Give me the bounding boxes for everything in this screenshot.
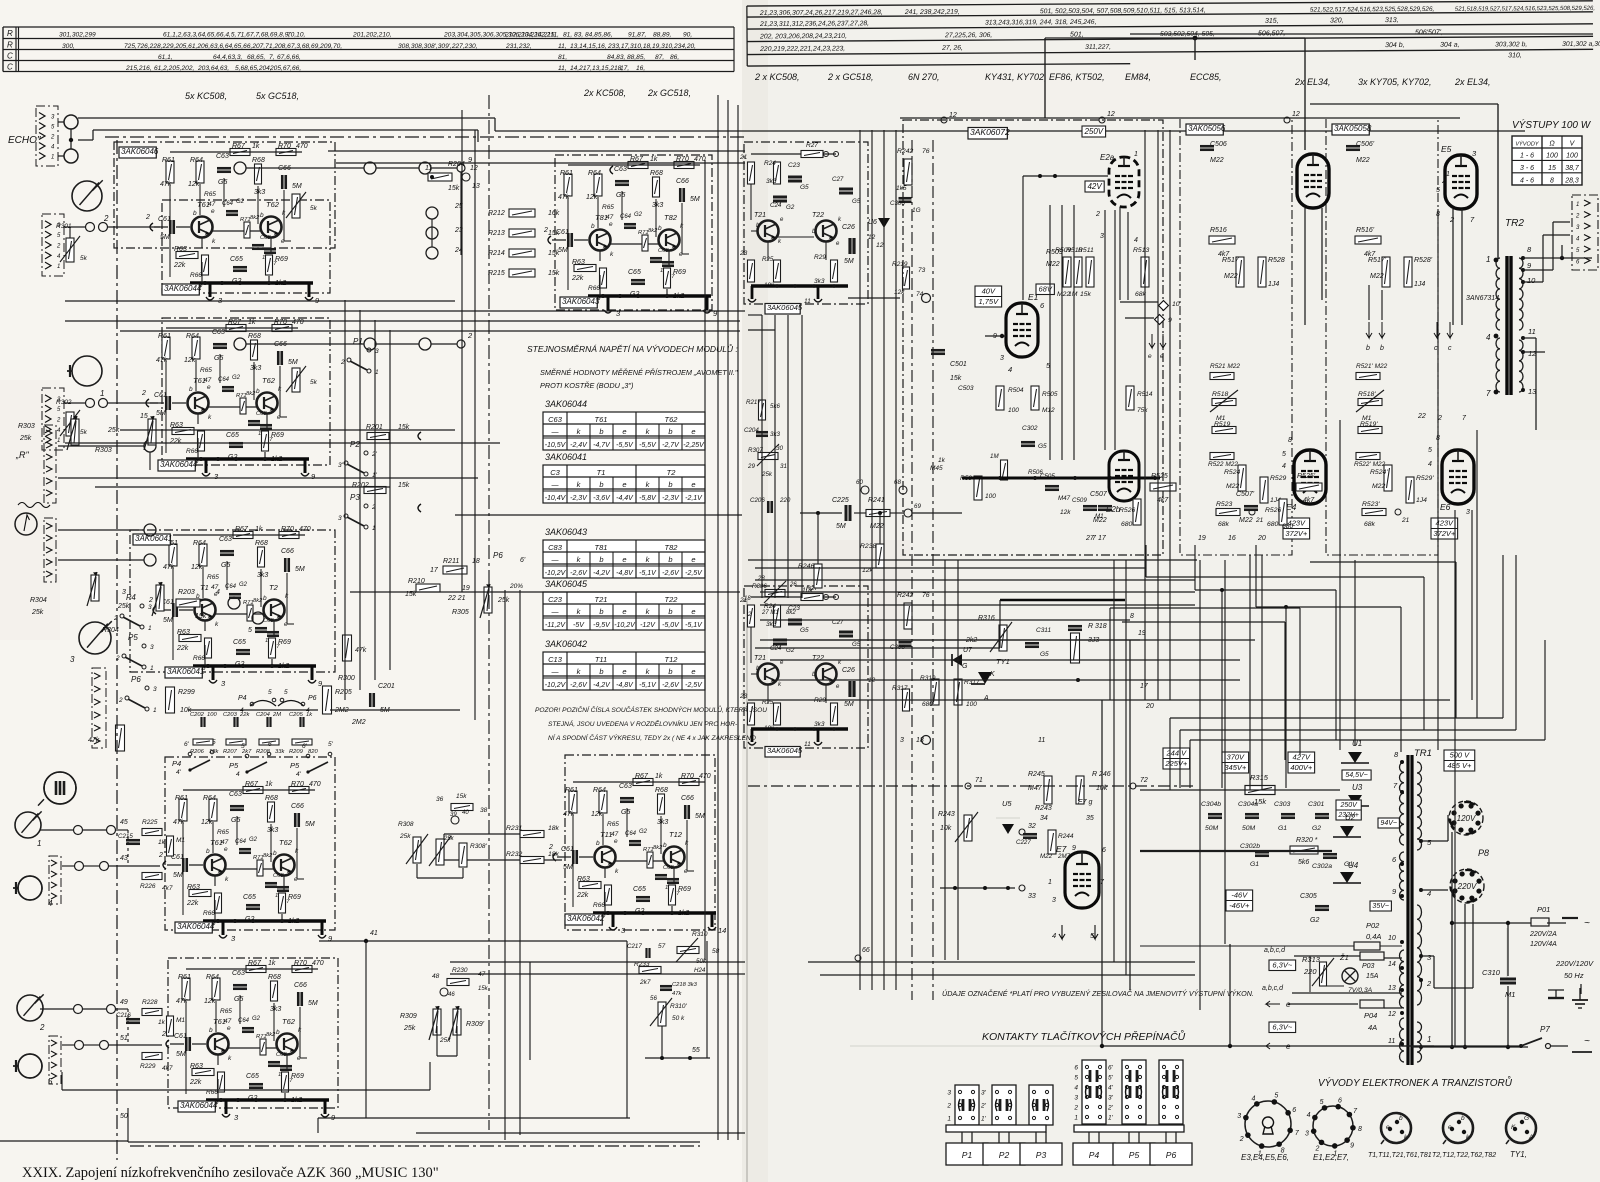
svg-text:C63: C63: [212, 329, 225, 336]
svg-text:T2,T12,T22,T62,T82: T2,T12,T22,T62,T82: [1432, 1152, 1496, 1159]
svg-text:2: 2: [50, 135, 55, 141]
svg-text:C204: C204: [744, 427, 759, 434]
svg-text:A: A: [983, 695, 989, 702]
svg-text:4 - 6: 4 - 6: [1520, 177, 1534, 184]
svg-text:11: 11: [1388, 1038, 1395, 1045]
svg-text:4: 4: [48, 899, 53, 908]
svg-text:1: 1: [1446, 171, 1450, 178]
svg-text:32: 32: [1028, 823, 1036, 830]
svg-text:R64: R64: [593, 787, 606, 794]
svg-text:5x KC508,: 5x KC508,: [185, 91, 227, 101]
svg-text:-4,2V: -4,2V: [593, 570, 611, 577]
svg-text:R230: R230: [452, 967, 468, 974]
svg-text:2: 2: [118, 697, 123, 704]
svg-text:6,3V~: 6,3V~: [1272, 1023, 1292, 1032]
svg-text:P6: P6: [493, 551, 503, 560]
svg-text:-2,6V: -2,6V: [662, 570, 680, 577]
svg-text:b: b: [668, 607, 672, 616]
svg-text:C227: C227: [1016, 839, 1031, 846]
svg-text:20%: 20%: [509, 583, 523, 590]
svg-text:3: 3: [70, 655, 75, 664]
svg-text:R528': R528': [1414, 257, 1433, 264]
svg-text:R304: R304: [30, 597, 47, 604]
svg-text:R67: R67: [630, 156, 644, 163]
svg-text:8k2: 8k2: [246, 391, 256, 397]
svg-text:e: e: [1148, 353, 1152, 360]
svg-text:5M: 5M: [690, 196, 700, 203]
svg-text:e: e: [622, 555, 626, 564]
svg-text:1J4: 1J4: [1414, 281, 1425, 288]
svg-text:345V+: 345V+: [1224, 763, 1247, 772]
svg-text:5M: 5M: [844, 258, 854, 265]
svg-text:313,: 313,: [1385, 17, 1399, 24]
svg-text:C302a: C302a: [1312, 863, 1332, 870]
svg-text:41: 41: [370, 930, 378, 937]
svg-text:22 21: 22 21: [447, 595, 466, 602]
svg-text:15: 15: [140, 413, 148, 420]
svg-text:C507': C507': [1236, 491, 1255, 498]
svg-text:G5: G5: [218, 179, 227, 186]
svg-text:35V~: 35V~: [1372, 903, 1389, 910]
svg-text:C66: C66: [294, 982, 307, 989]
svg-text:R63: R63: [187, 884, 200, 891]
svg-text:68,65,: 68,65,: [247, 54, 266, 61]
svg-text:1': 1': [1108, 1115, 1114, 1122]
svg-text:25k: 25k: [403, 1025, 416, 1032]
svg-text:R522 M22: R522 M22: [1208, 461, 1238, 468]
svg-text:5: 5: [268, 689, 272, 696]
svg-text:3AK06044: 3AK06044: [545, 399, 587, 409]
svg-text:1k: 1k: [650, 156, 658, 163]
svg-text:R317: R317: [892, 685, 908, 692]
svg-text:68: 68: [894, 479, 901, 486]
svg-text:C506': C506': [1356, 141, 1375, 148]
svg-text:T1: T1: [597, 468, 606, 477]
svg-text:1M: 1M: [990, 453, 999, 460]
svg-text:R67: R67: [228, 319, 242, 326]
svg-text:4k7: 4k7: [162, 1065, 173, 1072]
svg-text:5x GC518,: 5x GC518,: [256, 91, 299, 101]
svg-text:T11: T11: [595, 655, 607, 664]
svg-text:b: b: [260, 212, 264, 219]
svg-text:2x GC518,: 2x GC518,: [647, 88, 691, 98]
svg-text:KONTAKTY TLAČÍTKOVÝCH PŘEPÍNAČ: KONTAKTY TLAČÍTKOVÝCH PŘEPÍNAČŮ: [982, 1029, 1186, 1043]
svg-text:23: 23: [739, 250, 748, 257]
svg-text:1k5: 1k5: [896, 185, 907, 192]
svg-text:49: 49: [120, 999, 128, 1006]
svg-text:R66: R66: [593, 902, 605, 909]
svg-text:R303: R303: [95, 447, 112, 454]
svg-text:12k: 12k: [1060, 509, 1071, 516]
svg-text:e: e: [622, 480, 626, 489]
svg-text:R524': R524': [1370, 469, 1388, 476]
svg-text:50M: 50M: [1242, 825, 1256, 832]
svg-text:a,b,c,d: a,b,c,d: [1264, 947, 1286, 954]
svg-text:68V: 68V: [1039, 285, 1053, 294]
svg-text:R241: R241: [868, 497, 885, 504]
svg-text:b: b: [1380, 345, 1384, 352]
svg-text:241, 238,242,219,: 241, 238,242,219,: [904, 9, 960, 16]
svg-text:R70: R70: [291, 781, 304, 788]
svg-text:e: e: [622, 607, 626, 616]
svg-text:R517': R517': [1368, 257, 1387, 264]
svg-text:220V/2A: 220V/2A: [1529, 931, 1557, 938]
svg-text:17: 17: [1098, 535, 1107, 542]
svg-text:5: 5: [1274, 1093, 1278, 1100]
svg-text:R246: R246: [798, 563, 814, 570]
svg-text:12: 12: [1107, 111, 1115, 118]
svg-text:220: 220: [779, 497, 791, 504]
svg-text:4: 4: [240, 707, 244, 714]
svg-text:R242: R242: [897, 592, 913, 599]
svg-text:521,518,519,527,517,524,516,52: 521,518,519,527,517,524,516,523,525,508,…: [1455, 6, 1595, 13]
svg-text:C68: C68: [658, 248, 669, 254]
svg-text:1,75V: 1,75V: [979, 297, 1000, 306]
svg-text:A: A: [1528, 1134, 1533, 1141]
svg-text:P3: P3: [350, 493, 360, 502]
svg-text:1k: 1k: [255, 526, 263, 533]
svg-text:R516: R516: [1210, 227, 1227, 234]
svg-text:e: e: [691, 480, 695, 489]
svg-text:C23: C23: [788, 162, 800, 169]
svg-text:b: b: [273, 850, 277, 857]
svg-text:50M: 50M: [1205, 825, 1219, 832]
svg-text:16,: 16,: [636, 65, 645, 72]
svg-text:b: b: [591, 223, 595, 230]
svg-text:5M: 5M: [295, 566, 305, 573]
svg-text:M22: M22: [1046, 261, 1060, 268]
svg-text:G5: G5: [1038, 443, 1047, 450]
svg-text:R70: R70: [676, 156, 689, 163]
svg-text:100: 100: [1546, 153, 1558, 160]
svg-text:7,: 7,: [269, 54, 275, 61]
svg-text:2M7: 2M7: [1057, 853, 1071, 860]
svg-text:C66: C66: [281, 548, 294, 555]
svg-text:1: 1: [1427, 1035, 1431, 1044]
svg-text:R67: R67: [248, 960, 262, 967]
svg-text:R517: R517: [1222, 257, 1240, 264]
svg-text:R203: R203: [178, 589, 195, 596]
svg-text:R67: R67: [245, 781, 259, 788]
svg-text:3AK06072: 3AK06072: [970, 127, 1010, 137]
svg-text:27: 27: [1085, 535, 1095, 542]
svg-text:e: e: [211, 208, 215, 215]
svg-text:E2a: E2a: [1100, 153, 1115, 162]
svg-text:3AK05056: 3AK05056: [1188, 124, 1226, 133]
svg-text:220V/120V: 220V/120V: [1555, 959, 1594, 968]
svg-text:M22: M22: [1093, 517, 1107, 524]
svg-text:5M: 5M: [563, 864, 573, 871]
svg-text:76: 76: [922, 592, 930, 599]
svg-text:3k3: 3k3: [657, 819, 668, 826]
svg-text:T62: T62: [665, 415, 679, 424]
svg-text:73: 73: [918, 267, 926, 274]
svg-text:G1: G1: [1278, 825, 1287, 832]
svg-text:300,: 300,: [62, 43, 75, 50]
svg-text:3AK06045: 3AK06045: [545, 579, 588, 589]
svg-text:R506: R506: [1028, 469, 1043, 476]
svg-text:3k3: 3k3: [766, 178, 777, 185]
svg-text:—: —: [551, 557, 560, 564]
svg-text:T61: T61: [595, 415, 608, 424]
svg-text:86,: 86,: [670, 54, 679, 61]
svg-text:R212: R212: [488, 210, 505, 217]
svg-text:T62: T62: [279, 838, 293, 847]
svg-text:5M: 5M: [288, 359, 298, 366]
svg-text:R303: R303: [18, 423, 35, 430]
svg-text:30: 30: [776, 445, 783, 452]
svg-text:P5: P5: [128, 633, 138, 642]
svg-text:3k3: 3k3: [814, 278, 825, 285]
svg-text:5M: 5M: [160, 234, 170, 241]
svg-text:G2: G2: [249, 837, 258, 843]
svg-text:e: e: [691, 607, 695, 616]
svg-text:M45: M45: [930, 465, 943, 472]
svg-text:P4: P4: [126, 593, 136, 602]
svg-text:57: 57: [658, 943, 666, 950]
svg-text:T61: T61: [193, 376, 206, 385]
svg-text:10k: 10k: [802, 587, 814, 594]
svg-text:R61: R61: [178, 974, 191, 981]
svg-text:6: 6: [1074, 1065, 1078, 1072]
svg-text:P5: P5: [1129, 1150, 1140, 1160]
svg-text:3k3: 3k3: [766, 621, 777, 628]
svg-text:250V: 250V: [1083, 127, 1103, 136]
svg-text:6': 6': [1108, 1065, 1114, 1072]
svg-text:C509: C509: [1072, 497, 1087, 504]
svg-text:b: b: [193, 210, 197, 217]
svg-text:R63: R63: [577, 876, 590, 883]
svg-text:76: 76: [922, 148, 930, 155]
svg-text:15k: 15k: [950, 375, 962, 382]
svg-text:9: 9: [1072, 845, 1076, 852]
svg-text:2: 2: [158, 852, 163, 859]
svg-text:220,219,222,221,24,23,223,: 220,219,222,221,24,23,223,: [759, 45, 845, 53]
svg-text:5M: 5M: [176, 1051, 186, 1058]
svg-text:50 k: 50 k: [672, 1015, 685, 1022]
svg-text:27 M1: 27 M1: [761, 610, 779, 616]
svg-text:310,: 310,: [1508, 52, 1522, 59]
svg-text:U3: U3: [1352, 783, 1363, 792]
svg-text:20: 20: [1257, 535, 1266, 542]
svg-text:C303: C303: [1274, 801, 1290, 808]
svg-text:2 x GC518,: 2 x GC518,: [827, 72, 874, 82]
svg-text:470: 470: [309, 781, 321, 788]
svg-text:1: 1: [100, 389, 104, 398]
svg-text:R307: R307: [748, 447, 763, 454]
svg-text:100: 100: [966, 701, 977, 708]
svg-text:11,: 11,: [558, 43, 567, 50]
svg-text:b: b: [596, 840, 600, 847]
svg-text:10: 10: [1172, 301, 1180, 308]
svg-text:C215: C215: [118, 833, 133, 840]
svg-text:215,216,: 215,216,: [125, 65, 152, 72]
svg-text:4: 4: [1008, 365, 1012, 374]
svg-text:3: 3: [1466, 509, 1470, 516]
svg-text:e: e: [691, 555, 695, 564]
svg-text:T22: T22: [665, 595, 679, 604]
svg-text:b: b: [189, 386, 193, 393]
svg-text:-2,3V: -2,3V: [570, 495, 588, 502]
svg-text:R64: R64: [588, 170, 601, 177]
svg-text:R316: R316: [978, 615, 995, 622]
svg-text:22k: 22k: [169, 438, 182, 445]
svg-text:5k: 5k: [80, 429, 88, 436]
svg-text:G2: G2: [252, 1016, 261, 1022]
svg-text:47k: 47k: [88, 737, 100, 744]
svg-text:-10,5V: -10,5V: [545, 442, 567, 449]
svg-text:E7 g: E7 g: [1078, 799, 1093, 806]
svg-text:3AK06042: 3AK06042: [545, 639, 587, 649]
svg-text:-9,5V: -9,5V: [593, 622, 611, 629]
svg-text:R67: R67: [235, 526, 249, 533]
svg-text:R68: R68: [265, 795, 278, 802]
svg-text:1k: 1k: [938, 457, 946, 464]
svg-text:T61: T61: [197, 200, 210, 209]
svg-text:C66: C66: [681, 795, 694, 802]
svg-text:43: 43: [120, 855, 128, 862]
svg-text:1k: 1k: [265, 781, 273, 788]
svg-text:9: 9: [1350, 1143, 1354, 1150]
svg-text:e: e: [622, 427, 626, 436]
svg-text:C63: C63: [548, 415, 563, 424]
svg-text:84,83,: 84,83,: [607, 54, 626, 61]
svg-text:0,4A: 0,4A: [1366, 932, 1381, 941]
svg-text:301,302 a,305,: 301,302 a,305,: [1562, 41, 1600, 48]
svg-text:21: 21: [1255, 517, 1264, 524]
svg-text:1 - 6: 1 - 6: [1520, 153, 1534, 160]
svg-text:R309: R309: [400, 1013, 417, 1020]
svg-text:b: b: [599, 480, 603, 489]
svg-text:C65: C65: [246, 1073, 259, 1080]
svg-text:T22: T22: [812, 212, 824, 219]
svg-text:e: e: [622, 667, 626, 676]
svg-text:C63: C63: [229, 791, 242, 798]
svg-text:501, 502,503,504, 507,508: 501, 502,503,504, 507,508,509,510,511, 5…: [1040, 7, 1206, 15]
svg-text:15k: 15k: [548, 250, 560, 257]
svg-text:C501: C501: [950, 361, 967, 368]
svg-text:11: 11: [804, 741, 811, 748]
svg-text:R64: R64: [190, 157, 203, 164]
svg-text:R310': R310': [670, 1003, 688, 1010]
svg-text:P03: P03: [1362, 963, 1375, 970]
svg-text:P02: P02: [1366, 921, 1380, 930]
svg-text:6': 6': [520, 557, 526, 564]
svg-text:b: b: [599, 607, 603, 616]
svg-text:R63: R63: [572, 259, 585, 266]
svg-text:-5,5V: -5,5V: [639, 442, 657, 449]
svg-text:1: 1: [57, 438, 60, 444]
svg-text:-12V: -12V: [640, 622, 656, 629]
svg-text:4: 4: [1428, 461, 1432, 468]
svg-text:120V: 120V: [1457, 814, 1476, 823]
svg-text:5: 5: [241, 743, 245, 750]
svg-text:2: 2: [39, 1023, 45, 1032]
svg-text:470: 470: [694, 156, 706, 163]
svg-text:-2,4V: -2,4V: [570, 442, 588, 449]
svg-text:C216: C216: [116, 1012, 131, 1019]
svg-text:G2: G2: [639, 829, 648, 835]
svg-text:3: 3: [1074, 1095, 1078, 1102]
svg-text:3AK06041: 3AK06041: [545, 452, 587, 462]
svg-text:T81: T81: [595, 213, 608, 222]
svg-text:R68: R68: [650, 170, 663, 177]
svg-text:18: 18: [916, 737, 924, 744]
svg-text:303,302 b,: 303,302 b,: [1495, 41, 1527, 48]
svg-text:R229: R229: [140, 1063, 156, 1070]
svg-text:-2,3V: -2,3V: [662, 495, 680, 502]
svg-text:3: 3: [900, 737, 904, 744]
svg-text:C68: C68: [276, 1052, 287, 1058]
svg-text:-5,8V: -5,8V: [639, 495, 657, 502]
svg-text:42V: 42V: [1087, 182, 1102, 191]
svg-text:R67: R67: [635, 773, 649, 780]
svg-text:R70: R70: [681, 773, 694, 780]
svg-text:R67: R67: [232, 143, 246, 150]
svg-text:6N 270,: 6N 270,: [908, 72, 940, 82]
svg-text:C506: C506: [1210, 141, 1227, 148]
svg-text:3 - 6: 3 - 6: [1520, 165, 1534, 172]
svg-text:22k: 22k: [576, 892, 589, 899]
svg-text:G5: G5: [800, 627, 809, 634]
svg-text:R64: R64: [193, 540, 206, 547]
svg-text:21,23,306,307,24,26,217,219,27: 21,23,306,307,24,26,217,219,27,246,28,: [759, 9, 883, 17]
svg-text:-4,2V: -4,2V: [593, 682, 611, 689]
svg-text:-2,5V: -2,5V: [685, 682, 703, 689]
svg-text:100: 100: [1566, 153, 1578, 160]
svg-text:G2: G2: [634, 212, 643, 218]
svg-text:G5: G5: [1040, 651, 1049, 658]
svg-text:G5: G5: [214, 355, 223, 362]
svg-text:~: ~: [1584, 1036, 1590, 1047]
svg-text:1G: 1G: [912, 207, 921, 214]
svg-text:35: 35: [1086, 815, 1094, 822]
svg-text:R68: R68: [655, 787, 668, 794]
svg-text:250V: 250V: [1339, 802, 1358, 809]
svg-text:4: 4: [1252, 1095, 1256, 1102]
svg-text:25k: 25k: [107, 427, 120, 434]
svg-text:33: 33: [1028, 893, 1036, 900]
svg-text:244 V: 244 V: [1166, 749, 1188, 758]
svg-text:—: —: [551, 429, 560, 436]
svg-text:3': 3': [1108, 1095, 1114, 1102]
svg-text:2: 2: [1449, 215, 1455, 224]
svg-text:2': 2': [1107, 1105, 1114, 1112]
svg-text:70,10,: 70,10,: [287, 32, 306, 39]
svg-text:P4: P4: [238, 695, 247, 702]
svg-text:15: 15: [1548, 165, 1556, 172]
svg-text:4: 4: [1486, 333, 1491, 342]
svg-text:-10,2V: -10,2V: [545, 682, 567, 689]
svg-text:R70: R70: [294, 960, 307, 967]
svg-text:C507: C507: [1090, 491, 1108, 498]
svg-text:1J4: 1J4: [1416, 497, 1427, 504]
svg-text:3AK06046: 3AK06046: [121, 147, 159, 156]
svg-text:20: 20: [1145, 703, 1154, 710]
svg-text:11: 11: [425, 165, 432, 172]
svg-text:R518': R518': [1358, 391, 1376, 398]
svg-text:81, 83, 84,85,86,: 81, 83, 84,85,86,: [563, 32, 613, 39]
svg-text:-2,7V: -2,7V: [662, 442, 680, 449]
svg-text:-5,1V: -5,1V: [639, 682, 657, 689]
svg-text:5: 5: [1074, 1075, 1078, 1082]
svg-text:R215: R215: [488, 270, 505, 277]
svg-text:T2: T2: [667, 468, 677, 477]
svg-text:R69: R69: [275, 256, 288, 263]
svg-text:48: 48: [432, 973, 440, 980]
svg-text:205,67,66,: 205,67,66,: [269, 65, 301, 72]
svg-text:M22: M22: [1226, 483, 1239, 490]
